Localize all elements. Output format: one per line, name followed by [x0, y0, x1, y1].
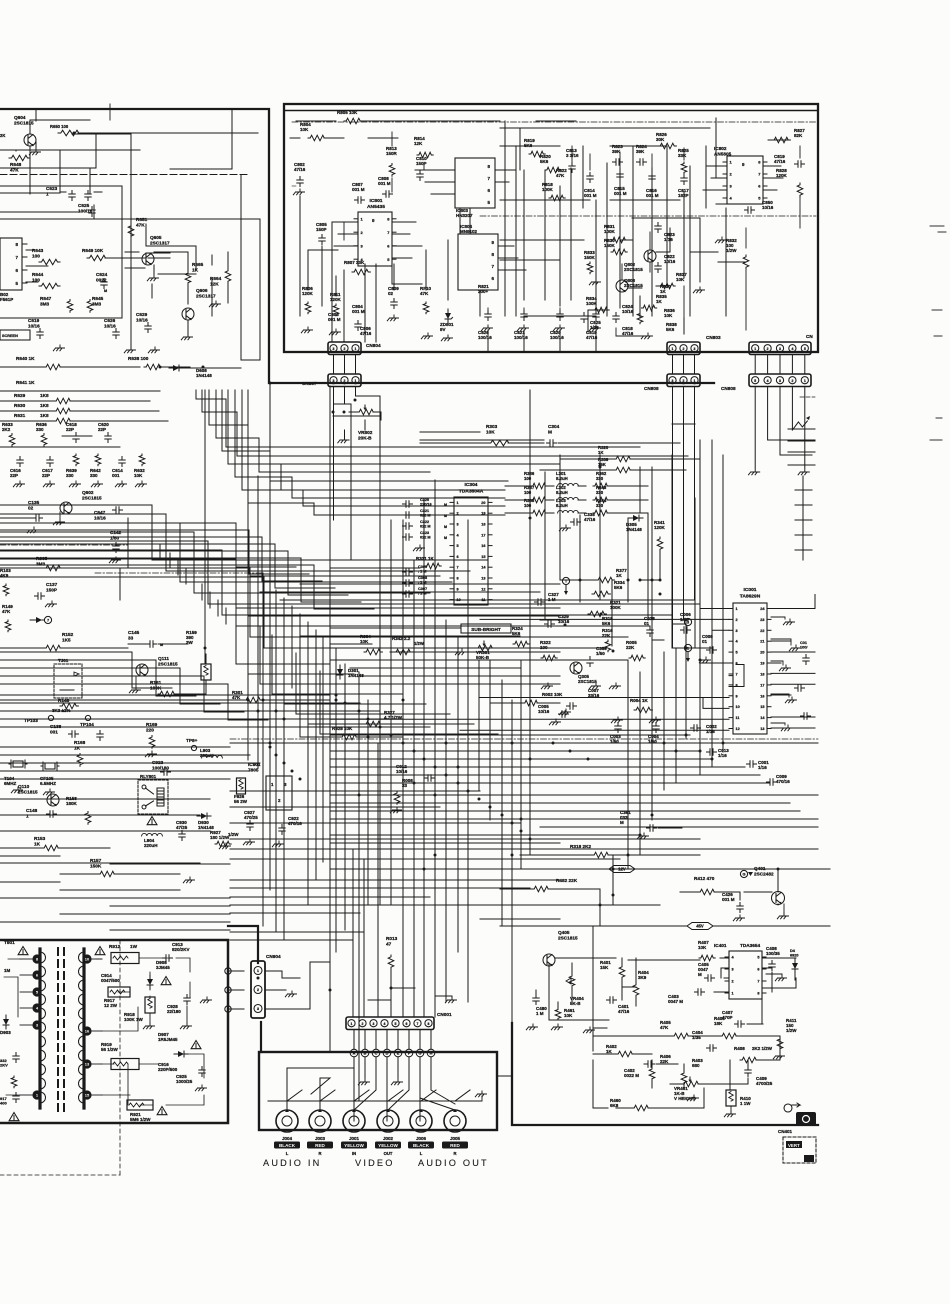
- svg-text:IN: IN: [352, 1151, 356, 1156]
- svg-text:22K: 22K: [602, 633, 611, 638]
- svg-text:C145: C145: [128, 630, 140, 635]
- svg-text:R664: R664: [210, 276, 222, 281]
- svg-text:100K: 100K: [610, 605, 622, 610]
- svg-text:8.2uH: 8.2uH: [556, 503, 568, 508]
- warning triangle bottom left: [9, 1113, 19, 1121]
- node T901 left pin 6: [20, 1090, 42, 1099]
- svg-text:1W: 1W: [130, 944, 138, 949]
- svg-text:CN808: CN808: [644, 386, 659, 391]
- resistor R004 1K: [630, 698, 652, 713]
- svg-text:13: 13: [760, 727, 764, 731]
- capacitor C006 1/50: [680, 612, 691, 633]
- resistor R630 1K8: [0, 403, 159, 414]
- wire left vertical: [283, 598, 285, 940]
- node circled 3 arrow: [684, 618, 691, 625]
- warning triangle R912: [95, 947, 105, 955]
- svg-text:001 M: 001 M: [352, 187, 365, 192]
- svg-text:TDA3654: TDA3654: [740, 943, 760, 948]
- svg-text:C304: C304: [548, 424, 560, 429]
- diode D908 3JM45: [147, 960, 170, 989]
- capacitor C009 470/16: [767, 774, 791, 785]
- svg-text:47/16: 47/16: [618, 1009, 630, 1014]
- warning triangle R921: [157, 1107, 167, 1115]
- capacitor C309 .1M: [403, 565, 428, 575]
- wire pin C to J001: [354, 1057, 376, 1110]
- wire bus horizontal: [0, 746, 230, 748]
- ground CN808 strip pin1: [798, 469, 809, 475]
- svg-text:1N4148: 1N4148: [196, 373, 212, 378]
- svg-text:2: 2: [344, 347, 346, 351]
- wire staircase B: [0, 559, 650, 626]
- svg-text:F561P: F561P: [0, 297, 13, 302]
- capacitor C807 001 M: [352, 182, 365, 203]
- svg-text:C624: C624: [96, 272, 108, 277]
- ground R410: [724, 1106, 735, 1117]
- wire trunk vertical: [467, 520, 469, 1002]
- wire trunk vertical: [529, 390, 531, 855]
- capacitor C824 10/16: [613, 304, 634, 323]
- capacitor C137 150P: [35, 582, 58, 607]
- wire upper-mid fill: [420, 431, 480, 433]
- svg-text:1: 1: [26, 813, 29, 818]
- jack J001 YELLOW: [341, 1109, 367, 1156]
- jack J006 BLACK: [408, 1109, 434, 1156]
- svg-text:M: M: [444, 525, 447, 529]
- wire bus horizontal: [480, 918, 560, 920]
- svg-text:200uH: 200uH: [200, 753, 214, 758]
- wire lower left feeds: [230, 932, 364, 940]
- transistor Q602 2SC1815: [60, 490, 102, 518]
- wire bus horizontal: [0, 762, 260, 764]
- relay RLY801: [138, 774, 168, 814]
- svg-text:CN808: CN808: [721, 386, 736, 391]
- svg-text:001 M: 001 M: [584, 193, 597, 198]
- svg-text:M: M: [104, 289, 107, 293]
- wire staircase A: [242, 390, 505, 506]
- label 2K fragment: [0, 133, 5, 138]
- svg-text:1K8: 1K8: [40, 393, 49, 398]
- node jack pin G: [416, 1049, 424, 1057]
- wire bus horizontal: [230, 806, 440, 808]
- ground C802: [292, 186, 305, 195]
- wire mid horizontal: [330, 567, 420, 569]
- svg-text:HN3207: HN3207: [456, 213, 473, 218]
- svg-text:10/16: 10/16: [558, 619, 570, 624]
- label SCREEN CONTROL: [0, 330, 30, 340]
- wire left vertical: [269, 383, 271, 890]
- svg-text:2: 2: [791, 379, 793, 383]
- svg-text:10/16: 10/16: [762, 205, 774, 210]
- wire left-mid step: [0, 544, 335, 588]
- wire pin D to J002: [386, 1057, 388, 1121]
- svg-text:1: 1: [46, 191, 49, 196]
- resistor R827 82K: [772, 128, 805, 143]
- crystal T104 6MHz: [4, 760, 27, 793]
- resistor R820 5K6: [540, 154, 561, 173]
- resistor R823 39K: [612, 144, 623, 165]
- svg-text:R152: R152: [62, 632, 74, 637]
- svg-text:1 M: 1 M: [548, 597, 556, 602]
- svg-text:1/16: 1/16: [664, 237, 673, 242]
- svg-text:100/16: 100/16: [78, 208, 93, 213]
- svg-text:33: 33: [128, 635, 134, 640]
- svg-text:400: 400: [0, 1101, 7, 1106]
- capacitor C402 0022 M: [624, 1061, 655, 1078]
- svg-text:12: 12: [736, 727, 740, 731]
- svg-text:100K: 100K: [542, 187, 554, 192]
- label 1/2W fragment: [228, 832, 239, 837]
- svg-text:5: 5: [395, 1022, 397, 1026]
- wires box B internal: [290, 121, 800, 336]
- wire left vertical: [169, 553, 171, 568]
- svg-text:R004 1K: R004 1K: [630, 698, 649, 703]
- boxed resistor F926 56 2W: [234, 778, 248, 804]
- capacitor C616 22P: [10, 457, 23, 479]
- svg-text:TJ01: TJ01: [58, 658, 69, 663]
- svg-text:TDA3504A: TDA3504A: [459, 489, 484, 495]
- svg-text:2SC1815: 2SC1815: [158, 661, 178, 666]
- wire mid-right vertical: [612, 855, 614, 905]
- svg-text:120K: 120K: [330, 297, 342, 302]
- resistor R807 33K: [344, 260, 370, 275]
- wire cn807 drop2: [350, 420, 352, 560]
- resistor R644 100: [32, 272, 60, 289]
- svg-text:2: 2: [344, 379, 346, 383]
- svg-text:8: 8: [736, 683, 738, 687]
- svg-text:001 M: 001 M: [722, 897, 735, 902]
- svg-text:Q606: Q606: [196, 288, 208, 293]
- svg-text:17: 17: [760, 683, 764, 687]
- svg-text:7: 7: [457, 566, 459, 570]
- svg-text:3: 3: [736, 629, 738, 633]
- svg-text:330: 330: [90, 473, 98, 478]
- wire box A vertical x131: [130, 134, 132, 350]
- wire trunk vertical: [520, 660, 522, 869]
- capacitor C626 10/16: [104, 318, 119, 339]
- svg-text:5K6: 5K6: [614, 585, 623, 590]
- wire upper-mid vertical: [627, 518, 629, 602]
- wire staircase B: [0, 505, 488, 560]
- wire left vertical: [315, 630, 317, 880]
- ic IC803 HN3207: [455, 158, 495, 218]
- resistor R008 33: [390, 778, 413, 813]
- resistor R377 1K: [560, 568, 660, 583]
- svg-text:C322: C322: [420, 520, 429, 524]
- capacitor C805 150P: [316, 222, 327, 245]
- svg-text:01: 01: [644, 621, 650, 626]
- svg-text:MN9102: MN9102: [460, 229, 478, 234]
- inductor L302 8.2uH: [556, 485, 586, 500]
- wire bus horizontal: [230, 904, 660, 906]
- svg-text:15: 15: [481, 555, 485, 559]
- svg-text:9: 9: [736, 694, 738, 698]
- svg-text:16: 16: [481, 544, 485, 548]
- svg-text:6MHZ: 6MHZ: [4, 781, 17, 786]
- inductor L303 8.2uH: [556, 498, 586, 513]
- svg-text:100/35: 100/35: [766, 951, 780, 956]
- node jack pin D: [383, 1049, 391, 1057]
- svg-text:47K: 47K: [420, 291, 429, 296]
- svg-text:M: M: [444, 503, 447, 507]
- warning triangle D908: [161, 977, 171, 985]
- svg-text:YELLOW: YELLOW: [378, 1143, 398, 1148]
- svg-text:J001: J001: [349, 1136, 360, 1141]
- svg-text:1/16: 1/16: [718, 753, 727, 758]
- svg-text:3K3 ±1%: 3K3 ±1%: [52, 708, 70, 713]
- svg-text:8.2uH: 8.2uH: [556, 490, 568, 495]
- wire left step lower: [0, 668, 220, 704]
- svg-text:BLACK: BLACK: [413, 1143, 430, 1148]
- svg-text:100: 100: [524, 476, 532, 481]
- wire verticals into CN001: [353, 695, 435, 1017]
- svg-text:8.2uH: 8.2uH: [556, 476, 568, 481]
- svg-text:6920: 6920: [790, 953, 798, 957]
- resistor R327 4.7 1/2W: [364, 710, 403, 727]
- wire left vertical: [185, 568, 187, 584]
- svg-text:15K: 15K: [600, 965, 609, 970]
- wire right margin stub: [788, 428, 815, 430]
- svg-text:R807 33K: R807 33K: [344, 260, 365, 265]
- wire trunk vertical: [445, 620, 447, 1002]
- wire left vertical: [177, 560, 179, 575]
- wire left-mid step: [0, 537, 322, 581]
- ic IC804 MN9102: [458, 224, 498, 290]
- svg-text:A: A: [353, 1052, 356, 1056]
- ground C925: [195, 1085, 206, 1091]
- resistor R805 10K: [337, 110, 362, 124]
- wire trunk vertical: [413, 560, 415, 869]
- svg-text:10/16: 10/16: [104, 323, 116, 328]
- svg-text:39K: 39K: [636, 149, 645, 154]
- wire right margin tick: [795, 519, 812, 521]
- wire left vertical: [275, 590, 277, 932]
- svg-text:120K: 120K: [776, 173, 788, 178]
- node jack pin C: [372, 1049, 380, 1057]
- capacitor C620 22P: [98, 422, 111, 443]
- svg-text:YELLOW: YELLOW: [344, 1143, 364, 1148]
- wire R402 row: [593, 1054, 684, 1088]
- svg-text:13: 13: [481, 577, 485, 581]
- svg-text:10K: 10K: [698, 945, 707, 950]
- wire left vertical: [247, 470, 249, 760]
- wire left horizontal: [0, 881, 60, 883]
- svg-text:J002: J002: [383, 1136, 394, 1141]
- transformer T901 core: [58, 948, 64, 1112]
- capacitor C823 1/16: [655, 223, 675, 243]
- svg-text:10: 10: [736, 705, 740, 709]
- resistor R832 100 1/2W: [726, 238, 749, 269]
- ground C928: [180, 1006, 191, 1029]
- svg-text:33/16: 33/16: [588, 693, 600, 698]
- wire Q605 links: [146, 253, 196, 298]
- svg-text:19: 19: [760, 662, 764, 666]
- svg-text:1/2W: 1/2W: [786, 1028, 797, 1033]
- wire left horizontal: [110, 929, 230, 931]
- ground R918: [143, 1013, 154, 1029]
- wire box A internals: [26, 104, 110, 282]
- resistor R404 3K9: [633, 970, 649, 997]
- svg-text:CN804: CN804: [366, 343, 381, 348]
- ground Q401: [777, 904, 788, 919]
- diode D907 1R5JM45: [158, 1032, 188, 1057]
- capacitor C016 small: [795, 685, 805, 691]
- wire bus horizontal: [0, 830, 210, 832]
- wire cn807 drop3: [379, 404, 381, 560]
- fusible resistor boxed: [201, 654, 211, 694]
- svg-text:1K: 1K: [606, 1049, 613, 1054]
- capacitor C822 10/16: [655, 254, 676, 273]
- capacitor C010 100/16: [800, 641, 809, 665]
- wire: [344, 355, 346, 375]
- node T901 left pin 4: [20, 1003, 42, 1012]
- wire CN001 to letter pin: [430, 1030, 432, 1049]
- wire Q605 Q606 joins: [148, 252, 260, 360]
- svg-text:2K: 2K: [0, 133, 5, 138]
- svg-text:1/50: 1/50: [110, 535, 120, 540]
- svg-text:470/16: 470/16: [776, 779, 790, 784]
- svg-text:R168: R168: [74, 740, 86, 745]
- svg-text:2: 2: [257, 988, 259, 992]
- ground Q604: [29, 149, 40, 155]
- svg-text:2K2: 2K2: [2, 427, 11, 432]
- svg-text:12 2W: 12 2W: [104, 1003, 118, 1008]
- wire: [672, 355, 674, 375]
- ground CN808 pin5: [749, 469, 760, 475]
- svg-text:10/16: 10/16: [538, 709, 550, 714]
- svg-text:R805 10K: R805 10K: [337, 110, 358, 115]
- svg-text:330: 330: [596, 490, 604, 495]
- wire left step lower: [0, 660, 196, 696]
- svg-text:1K5: 1K5: [62, 637, 71, 642]
- ground IC001 right 5: [771, 723, 793, 731]
- capacitor C809 02: [388, 286, 399, 309]
- wire left horizontal: [60, 913, 230, 915]
- svg-text:50K-B: 50K-B: [476, 655, 490, 660]
- svg-text:220uH: 220uH: [144, 843, 158, 848]
- svg-text:1K: 1K: [656, 299, 663, 304]
- svg-text:10/16: 10/16: [664, 259, 676, 264]
- svg-text:12: 12: [481, 587, 485, 591]
- svg-text:J003: J003: [315, 1136, 326, 1141]
- capacitor C359 1/50: [587, 646, 607, 667]
- wire boxB cap stub: [523, 330, 525, 352]
- svg-text:IC001: IC001: [743, 587, 756, 593]
- svg-text:R631: R631: [14, 413, 26, 418]
- svg-text:100K 1W: 100K 1W: [124, 1017, 144, 1022]
- svg-text:100/16: 100/16: [514, 335, 528, 340]
- svg-text:7805: 7805: [248, 767, 259, 772]
- resistor R149 47K: [2, 604, 13, 632]
- svg-text:5K-B: 5K-B: [570, 1001, 581, 1006]
- svg-text:19: 19: [481, 512, 485, 516]
- svg-text:1K8: 1K8: [40, 413, 49, 418]
- svg-text:3M3: 3M3: [36, 561, 46, 566]
- svg-text:6: 6: [406, 1022, 408, 1026]
- diode D305 1N4148: [626, 515, 643, 532]
- svg-text:C142: C142: [110, 530, 122, 535]
- ic IC901 7805: [248, 762, 292, 810]
- wire mid-right vertical: [675, 648, 677, 782]
- capacitor C928 22/180: [167, 995, 190, 1015]
- wire CN904 pin1 right: [265, 971, 300, 978]
- svg-text:3: 3: [732, 968, 734, 972]
- voltage tag 45V: [560, 923, 830, 930]
- wire left vertical: [307, 622, 309, 905]
- resistor R401 15K: [600, 960, 625, 979]
- capacitor C804 001 M: [352, 304, 365, 331]
- capacitor C005 10/16: [538, 704, 569, 725]
- capacitor C017 small: [801, 713, 811, 719]
- wire left vertical: [329, 386, 331, 1052]
- svg-text:10K: 10K: [486, 429, 495, 434]
- wire: [694, 355, 696, 375]
- svg-text:R647: R647: [40, 296, 52, 301]
- svg-text:3W: 3W: [186, 640, 194, 645]
- ground Q305: [541, 683, 620, 689]
- resistor R338 100: [505, 498, 554, 516]
- svg-text:C138: C138: [50, 724, 62, 729]
- svg-text:47K: 47K: [232, 695, 241, 700]
- wire box A joins: [0, 134, 260, 219]
- svg-text:R638 100: R638 100: [128, 356, 149, 361]
- svg-text:150R: 150R: [386, 151, 398, 156]
- wire IC001 right rows: [771, 595, 815, 729]
- resistor R632 10K: [134, 454, 145, 478]
- svg-text:RED: RED: [315, 1143, 325, 1148]
- wire R460 loop: [593, 1060, 704, 1108]
- resistor R005 22K: [626, 640, 645, 661]
- wire trunk vertical: [501, 680, 503, 926]
- wire: [754, 387, 756, 469]
- ic IC801 AN5435: [354, 198, 396, 266]
- wire left-mid step: [0, 558, 361, 602]
- block VERT dashed: [783, 1137, 816, 1163]
- wire boxB vertical: [570, 168, 572, 300]
- svg-text:30K: 30K: [656, 137, 665, 142]
- resistor R103: [0, 568, 11, 596]
- label 1M fragment: [4, 968, 11, 973]
- svg-text:3: 3: [457, 523, 459, 527]
- resistor R002 10K: [490, 692, 563, 706]
- wire left vertical: [291, 606, 293, 688]
- wire left vertical: [159, 545, 161, 560]
- wire boxB rows: [500, 128, 710, 260]
- svg-text:1: 1: [736, 607, 738, 611]
- wire mid horizontal: [350, 667, 520, 669]
- svg-text:. 1 M: . 1 M: [418, 569, 426, 573]
- wire right margin tick: [795, 504, 812, 506]
- inductor L301 8.2uH: [556, 471, 586, 486]
- wire right-edge speck: [938, 231, 946, 233]
- connector CN808 strip B: [721, 374, 811, 391]
- node circled 1: [684, 644, 691, 662]
- crystal CF105 6.5MHz: [40, 762, 59, 795]
- svg-text:CN001: CN001: [437, 1012, 452, 1017]
- wire trunk vertical: [335, 648, 337, 952]
- svg-text:CN904: CN904: [266, 954, 281, 959]
- capacitor C145 33 M: [128, 630, 188, 647]
- ic IC401 TDA3654: [714, 943, 766, 999]
- svg-text:R: R: [318, 1151, 321, 1156]
- wire right margin tick: [795, 489, 812, 491]
- wire R013 links: [368, 988, 415, 1000]
- resistor R647 3H3: [40, 296, 73, 312]
- svg-text:C137: C137: [46, 582, 58, 587]
- svg-text:1K: 1K: [616, 573, 623, 578]
- resistor R403 680: [681, 1058, 703, 1084]
- capacitor C625 100/16: [78, 203, 95, 217]
- wire: [683, 387, 685, 621]
